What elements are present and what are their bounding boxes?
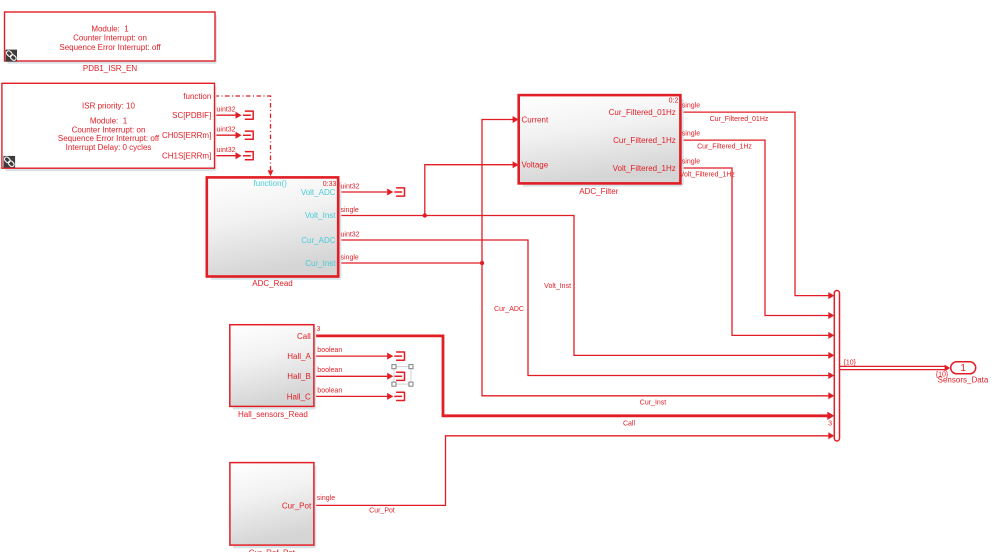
svg-text:Sequence Error Interrupt: off: Sequence Error Interrupt: off [58, 134, 160, 143]
svg-text:Cur_Filtered_01Hz: Cur_Filtered_01Hz [710, 116, 769, 123]
svg-text:boolean: boolean [317, 367, 342, 374]
wire Cur_ADC to mux input 5 [338, 240, 829, 376]
wire Hall_A to terminator [314, 355, 388, 357]
svg-text:Volt_ADC: Volt_ADC [301, 188, 336, 197]
wire function trigger (dash-dot) [215, 96, 271, 170]
wire CH0S[ERRm] to terminator [215, 134, 236, 136]
wire Call (wide) to mux input 7 [314, 336, 828, 416]
svg-text:ISR priority: 10: ISR priority: 10 [82, 102, 135, 111]
svg-text:single: single [341, 207, 359, 214]
subsystem Hall_sensors_Read [230, 325, 315, 409]
terminator T5 [394, 351, 404, 360]
svg-text:Hall_sensors_Read: Hall_sensors_Read [238, 410, 308, 419]
svg-text:Cur_Ref_Pot: Cur_Ref_Pot [249, 548, 296, 552]
wire Cur_Filtered_01Hz to mux input 1 [680, 112, 828, 296]
terminator T3 [243, 151, 253, 160]
svg-text:single: single [682, 102, 700, 109]
mux bus creator [834, 291, 839, 442]
terminator T7 [394, 392, 404, 401]
svg-text:Cur_Inst: Cur_Inst [305, 259, 336, 268]
wire Volt_Inst to mux input 4 [338, 216, 829, 356]
svg-text:Volt_Inst: Volt_Inst [544, 283, 571, 290]
svg-text:Cur_Inst: Cur_Inst [640, 400, 667, 407]
svg-text:uint32: uint32 [341, 232, 360, 239]
svg-text:Volt_Inst: Volt_Inst [305, 211, 336, 220]
svg-text:Counter Interrupt: on: Counter Interrupt: on [73, 34, 147, 43]
svg-text:3: 3 [317, 326, 321, 333]
svg-text:Cur_Filtered_1Hz: Cur_Filtered_1Hz [697, 144, 752, 151]
bus wire mux to Sensors_Data outport [840, 366, 946, 369]
svg-text:single: single [682, 159, 700, 166]
junction dot Cur_Inst [480, 261, 484, 265]
wire SC[PDBIF] to terminator [215, 114, 236, 116]
terminator T2 [243, 131, 253, 140]
svg-text:Cur_ADC: Cur_ADC [301, 236, 335, 245]
block PDB1_ISR_EN [5, 12, 217, 63]
svg-text:3: 3 [828, 420, 832, 427]
link badge PDB1 ISR [3, 156, 15, 168]
svg-text:ADC_Read: ADC_Read [252, 279, 292, 288]
wire Cur_Inst to mux input 6 [338, 263, 829, 396]
svg-text:0:2: 0:2 [669, 97, 679, 104]
svg-text:function: function [183, 92, 211, 101]
svg-text:Cur_Pot: Cur_Pot [369, 507, 395, 514]
wire branch Volt_Inst to Voltage input [425, 165, 513, 216]
svg-text:Voltage: Voltage [522, 161, 549, 170]
svg-text:Call: Call [297, 332, 311, 341]
svg-text:Interrupt Delay: 0 cycles: Interrupt Delay: 0 cycles [66, 143, 152, 152]
svg-text:single: single [317, 495, 335, 502]
terminator T1 [243, 111, 253, 120]
svg-text:SC[PDBIF]: SC[PDBIF] [172, 111, 211, 120]
wire Volt_Filtered_1Hz to mux input 3 [680, 168, 828, 335]
wire Volt_ADC to terminator [338, 191, 387, 193]
svg-text:boolean: boolean [317, 347, 342, 354]
link badge PDB1_ISR_EN [6, 50, 18, 62]
trigger arrowhead into ADC_Read [268, 170, 274, 176]
wire CH1S[ERRm] to terminator [215, 155, 236, 157]
wire Hall_B to terminator [314, 375, 388, 377]
svg-text:uint32: uint32 [341, 184, 360, 191]
svg-text:Cur_ADC: Cur_ADC [494, 306, 524, 313]
svg-text:Current: Current [522, 115, 549, 124]
svg-text:function(): function() [254, 179, 288, 188]
svg-text:Hall_A: Hall_A [287, 352, 311, 361]
svg-text:Module: 1: Module: 1 [91, 24, 129, 33]
svg-text:uint32: uint32 [217, 107, 236, 114]
svg-text:CH0S[ERRm]: CH0S[ERRm] [162, 131, 211, 140]
outport Sensors_Data [951, 362, 976, 374]
selection handles of terminator T6 [392, 365, 413, 387]
subsystem Cur_Ref_Pot [230, 463, 315, 547]
svg-text:uint32: uint32 [217, 127, 236, 134]
wire Hall_C to terminator [314, 395, 388, 397]
wire Cur_Filtered_1Hz to mux input 2 [680, 140, 828, 315]
svg-text:boolean: boolean [317, 387, 342, 394]
svg-text:ADC_Filter: ADC_Filter [579, 187, 618, 196]
svg-text:uint32: uint32 [217, 147, 236, 154]
wire branch Cur_Inst to Current input [482, 120, 513, 264]
svg-text:Hall_C: Hall_C [287, 392, 311, 401]
svg-text:Hall_B: Hall_B [287, 372, 311, 381]
svg-text:CH1S[ERRm]: CH1S[ERRm] [162, 152, 211, 161]
svg-text:Volt_Filtered_1Hz: Volt_Filtered_1Hz [613, 164, 676, 173]
svg-text:{10}: {10} [844, 359, 857, 366]
svg-text:{10}: {10} [936, 372, 949, 379]
svg-text:PDB1_ISR_EN: PDB1_ISR_EN [83, 64, 137, 73]
junction dot Volt_Inst [423, 213, 427, 217]
subsystem ADC_Read [207, 177, 341, 278]
svg-text:single: single [341, 255, 359, 262]
svg-text:Cur_Pot: Cur_Pot [282, 501, 312, 510]
svg-text:Module: 1: Module: 1 [90, 117, 128, 126]
svg-text:Cur_Filtered_1Hz: Cur_Filtered_1Hz [613, 136, 676, 145]
svg-text:Sequence Error Interrupt: off: Sequence Error Interrupt: off [59, 43, 161, 52]
svg-text:1: 1 [960, 363, 966, 374]
wire Cur_Pot to mux input 8 [314, 436, 829, 506]
terminator T4 [394, 187, 404, 196]
svg-text:Cur_Filtered_01Hz: Cur_Filtered_01Hz [609, 108, 676, 117]
svg-text:Volt_Filtered_1Hz: Volt_Filtered_1Hz [680, 172, 736, 179]
svg-text:Call: Call [623, 421, 636, 428]
terminator T6 (selected) [394, 372, 404, 381]
svg-text:single: single [682, 131, 700, 138]
subsystem ADC_Filter [519, 95, 683, 185]
block PDB1 ISR (unnamed) [2, 83, 216, 170]
